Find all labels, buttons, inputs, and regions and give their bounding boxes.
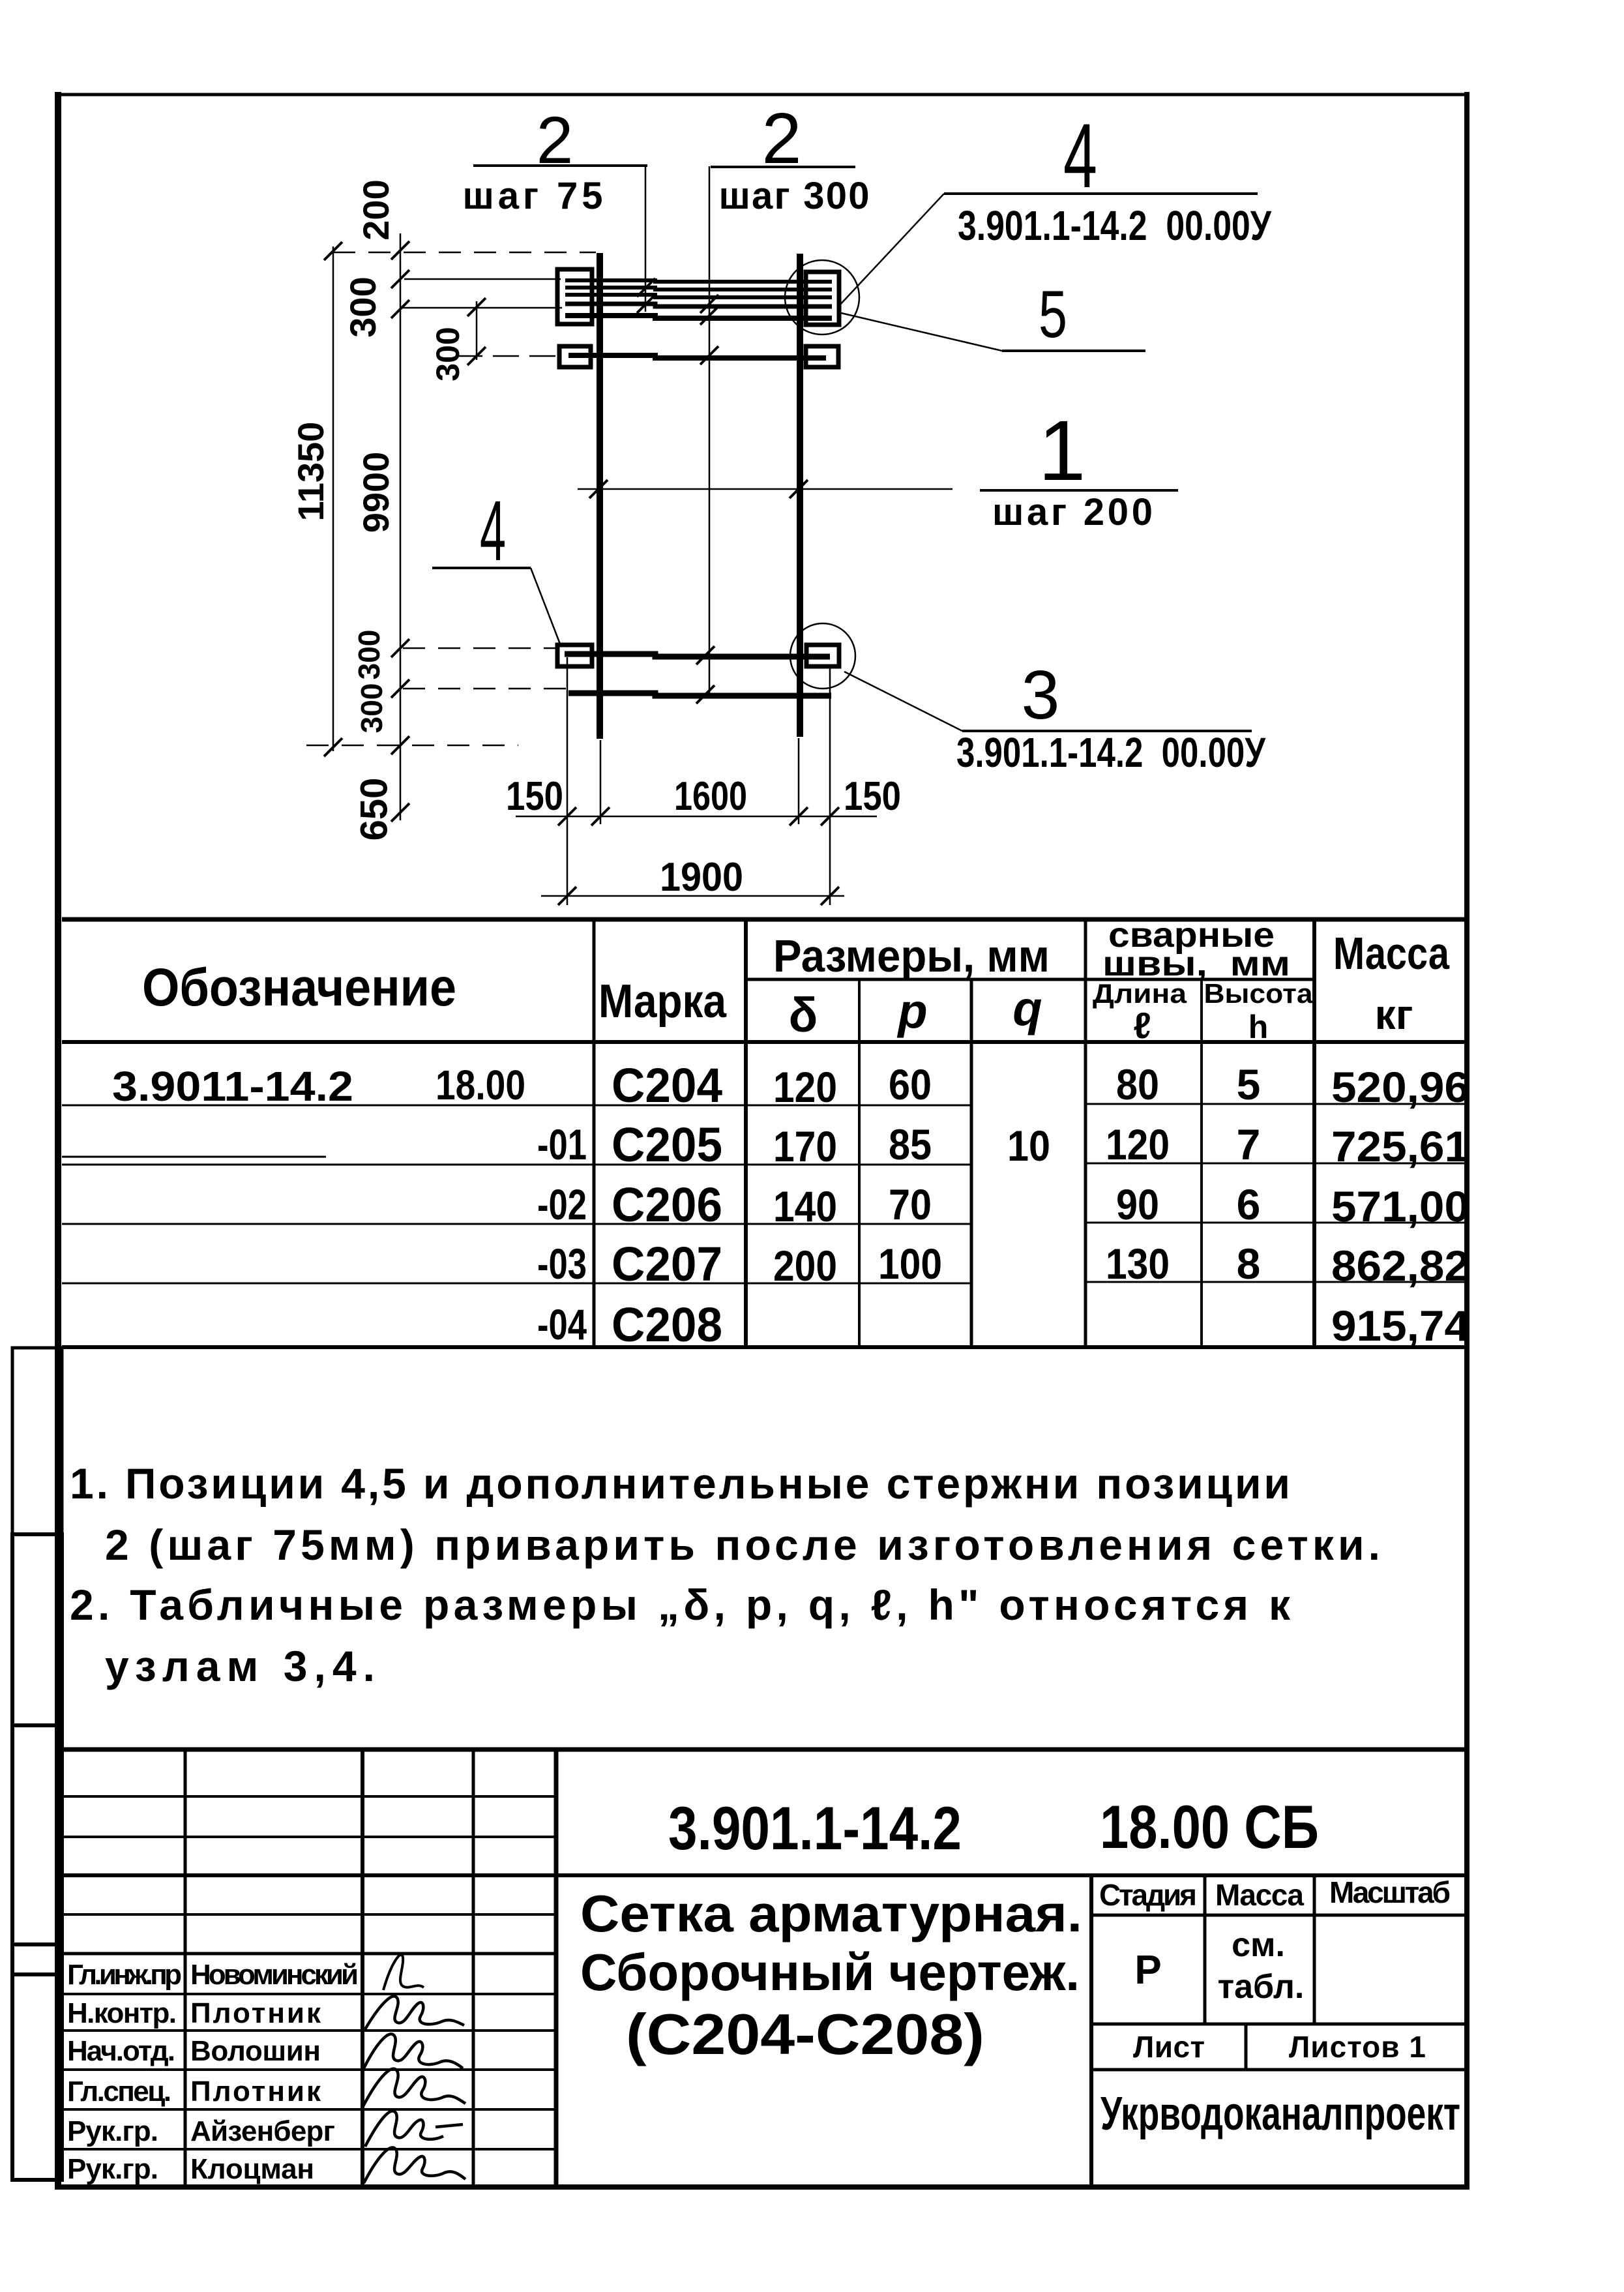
list row bottom <box>1091 2068 1466 2072</box>
table row line 4 <box>62 1283 971 1285</box>
binding box 0 <box>12 1348 62 1534</box>
sig row lines <box>62 1795 556 1798</box>
svg-text:шаг 300: шаг 300 <box>719 175 870 217</box>
underline 3 <box>962 730 1252 732</box>
border frame top <box>55 93 1469 97</box>
mesh right longitudinal bar <box>797 254 803 737</box>
svg-text:100: 100 <box>878 1240 942 1288</box>
bottom transverse bar A <box>565 654 830 657</box>
mesh left longitudinal bar <box>597 253 603 739</box>
svg-text:862,82: 862,82 <box>1331 1242 1469 1290</box>
underline 4 mid <box>432 567 531 569</box>
svg-text:85: 85 <box>889 1120 932 1168</box>
svg-text:18.00 СБ: 18.00 СБ <box>1100 1793 1319 1861</box>
table col p/q <box>970 979 973 1347</box>
svg-text:4: 4 <box>480 483 506 578</box>
svg-text:Сетка арматурная.: Сетка арматурная. <box>580 1884 1082 1942</box>
svg-text:Новоминский: Новоминский <box>190 1959 359 1991</box>
svg-text:Обозначение: Обозначение <box>142 958 456 1017</box>
extension line y472 <box>403 307 562 309</box>
node circle top <box>785 260 859 335</box>
svg-text:150: 150 <box>844 774 901 819</box>
single transverse bar top <box>568 355 826 358</box>
svg-text:130: 130 <box>1106 1240 1170 1288</box>
bottom transverse bar B <box>568 693 831 696</box>
table header bottom <box>62 1040 1466 1044</box>
svg-text:см.: см. <box>1232 1926 1285 1964</box>
svg-text:-03: -03 <box>537 1240 587 1288</box>
svg-text:Высота: Высота <box>1204 978 1314 1009</box>
svg-text:швы, мм: швы, мм <box>1102 944 1290 983</box>
svg-text:Айзенберг: Айзенберг <box>190 2115 335 2147</box>
border frame bottom <box>55 2184 1469 2190</box>
svg-text:Гл.спец.: Гл.спец. <box>67 2076 171 2107</box>
extension dashed y1143 <box>306 745 518 747</box>
ticks bottom dims <box>558 807 839 905</box>
svg-text:шаг 75: шаг 75 <box>463 175 603 217</box>
svg-text:-02: -02 <box>537 1180 587 1228</box>
svg-text:Плотник: Плотник <box>190 1997 321 2029</box>
svg-text:Стадия: Стадия <box>1099 1878 1197 1912</box>
svg-text:С208: С208 <box>612 1298 722 1352</box>
table row line 2 double <box>62 1156 326 1158</box>
plate P5 bottom-left <box>557 645 592 666</box>
svg-text:1900: 1900 <box>660 855 743 900</box>
plate P4 right small <box>806 346 838 367</box>
ext vertical bottom dims <box>567 657 830 905</box>
table row line 1 <box>62 1105 971 1107</box>
svg-text:С206: С206 <box>612 1178 722 1232</box>
svg-text:Гл.инж.пр: Гл.инж.пр <box>67 1959 182 1991</box>
svg-text:5: 5 <box>1237 1060 1261 1109</box>
list col divider <box>1245 2024 1248 2070</box>
svg-text:С207: С207 <box>612 1237 722 1291</box>
svg-text:5: 5 <box>1039 277 1067 351</box>
svg-text:Сборочный чертеж.: Сборочный чертеж. <box>580 1943 1080 2001</box>
stadia cols <box>1203 1875 1207 2024</box>
signature scrawl 3 <box>364 2034 463 2068</box>
svg-text:1600: 1600 <box>674 774 747 819</box>
bar tick slashes <box>589 278 808 704</box>
table col marka/delta <box>744 919 748 1347</box>
signature scrawl 1 <box>383 1955 424 1990</box>
svg-text:Р: Р <box>1134 1948 1161 1993</box>
leader 4 top <box>838 194 944 306</box>
svg-text:Рук.гр.: Рук.гр. <box>67 2115 158 2147</box>
svg-text:Масса: Масса <box>1333 928 1450 979</box>
svg-text:3: 3 <box>1022 657 1060 734</box>
svg-text:Масса: Масса <box>1215 1878 1304 1912</box>
svg-text:140: 140 <box>773 1182 837 1230</box>
binding box 4 <box>12 1974 62 2180</box>
svg-text:300: 300 <box>352 630 386 680</box>
bundle bar 5 pos5 <box>565 316 832 318</box>
svg-text:табл.: табл. <box>1218 1968 1305 2006</box>
extension line y428 <box>404 278 561 280</box>
binding box 2 <box>12 1725 62 1944</box>
extension line y546 <box>456 355 559 357</box>
svg-text:18.00: 18.00 <box>436 1062 525 1109</box>
extension dashed y994 <box>403 647 556 649</box>
bundle bar 3 <box>565 295 832 297</box>
svg-text:90: 90 <box>1116 1180 1159 1228</box>
svg-text:571,00: 571,00 <box>1331 1182 1469 1230</box>
svg-text:3.901.1-14.2 00.00У: 3.901.1-14.2 00.00У <box>958 202 1272 249</box>
thin vertical ext sh300 <box>709 166 711 698</box>
svg-text:11350: 11350 <box>290 422 331 522</box>
extension dashed mesh top <box>333 252 596 254</box>
signature scrawl 5 <box>365 2111 463 2147</box>
dim line shag200 <box>578 488 952 490</box>
bundle bar 2 <box>565 288 832 290</box>
table col vysota/massa <box>1312 919 1316 1347</box>
extension dashed y1056 <box>403 688 566 690</box>
svg-text:Клоцман: Клоцман <box>190 2153 314 2185</box>
table col delta/p <box>858 979 861 1347</box>
svg-text:7: 7 <box>1237 1120 1261 1168</box>
underline 2 sh300 <box>711 166 855 168</box>
signature scrawl 2 <box>365 1996 464 2029</box>
titleblock top line <box>62 1748 1466 1752</box>
svg-text:9900: 9900 <box>355 452 396 533</box>
svg-text:150: 150 <box>506 774 563 819</box>
svg-text:Листов 1: Листов 1 <box>1289 2030 1426 2064</box>
table bottom line <box>62 1345 1466 1349</box>
svg-text:δ: δ <box>789 988 818 1042</box>
svg-text:3.901.1-14.2 00.00У: 3.901.1-14.2 00.00У <box>956 729 1266 776</box>
svg-text:h: h <box>1248 1009 1269 1045</box>
svg-text:Волошин: Волошин <box>190 2035 321 2067</box>
title col line <box>1089 1875 1093 2187</box>
svg-text:200: 200 <box>773 1242 837 1290</box>
svg-text:8: 8 <box>1237 1240 1261 1288</box>
svg-text:С204: С204 <box>612 1058 722 1112</box>
underline 1 <box>980 489 1178 492</box>
table col dlina/vysota <box>1200 979 1203 1347</box>
leader 3 <box>844 672 962 731</box>
dim line 1600 <box>516 816 877 818</box>
svg-text:80: 80 <box>1116 1060 1159 1109</box>
bundle bar 1 <box>565 280 832 282</box>
border frame right <box>1464 92 1469 2190</box>
svg-text:Н.контр.: Н.контр. <box>67 1997 177 2029</box>
svg-text:1: 1 <box>1039 402 1086 498</box>
node circle bottom <box>790 623 855 689</box>
svg-text:915,74: 915,74 <box>1331 1302 1469 1350</box>
plate P1 top-left <box>557 269 592 324</box>
binding box 1 <box>12 1534 62 1725</box>
bundle bar 4 <box>565 304 832 306</box>
svg-text:ℓ: ℓ <box>1133 1005 1151 1046</box>
dim line 1900 <box>541 895 844 897</box>
svg-text:Длина: Длина <box>1093 978 1187 1009</box>
svg-text:Марка: Марка <box>598 975 727 1028</box>
thin vertical ext sh75 <box>645 164 647 312</box>
binding box 3 <box>12 1944 62 1974</box>
table top line <box>62 917 1466 922</box>
svg-text:Рук.гр.: Рук.гр. <box>67 2153 158 2185</box>
svg-text:(С204-С208): (С204-С208) <box>626 2002 984 2066</box>
tick marks left chains <box>324 241 486 822</box>
svg-text:300: 300 <box>342 276 383 337</box>
svg-text:3.9011-14.2: 3.9011-14.2 <box>112 1063 353 1110</box>
svg-text:725,61: 725,61 <box>1331 1122 1469 1170</box>
svg-text:120: 120 <box>773 1063 837 1111</box>
plate P3 left small <box>559 346 591 367</box>
table row line 2 <box>62 1164 971 1166</box>
svg-text:10: 10 <box>1007 1122 1050 1170</box>
svg-text:узлам 3,4.: узлам 3,4. <box>105 1642 375 1690</box>
border frame left <box>55 92 61 2190</box>
underline 2 sh75 <box>473 164 647 167</box>
svg-text:q: q <box>1012 981 1042 1035</box>
svg-text:С205: С205 <box>612 1118 722 1172</box>
svg-text:650: 650 <box>353 778 395 841</box>
svg-text:Укрводоканалпроект: Укрводоканалпроект <box>1100 2088 1460 2140</box>
svg-text:200: 200 <box>355 179 396 240</box>
svg-text:p: p <box>896 984 927 1038</box>
titleblock full line docnum bottom <box>62 1873 1466 1877</box>
plate P2 top-right <box>806 272 839 325</box>
svg-text:6: 6 <box>1237 1180 1261 1228</box>
svg-text:кг: кг <box>1375 991 1413 1038</box>
table subheader line <box>746 978 1314 981</box>
leader 5 <box>841 313 1002 351</box>
svg-text:300: 300 <box>430 327 466 381</box>
plate P6 bottom-right <box>806 645 839 666</box>
dim small chain 300 <box>476 301 478 360</box>
svg-text:3.901.1-14.2: 3.901.1-14.2 <box>668 1794 962 1862</box>
svg-text:-01: -01 <box>537 1120 587 1168</box>
table col oboznachenie/marka <box>593 919 596 1347</box>
svg-text:1. Позиции 4,5 и дополнительны: 1. Позиции 4,5 и дополнительные стержни … <box>70 1459 1290 1508</box>
underline 4 top <box>944 192 1258 195</box>
signature scrawl 6 <box>364 2147 465 2183</box>
svg-text:520,96: 520,96 <box>1331 1063 1469 1111</box>
svg-text:4: 4 <box>1063 104 1097 207</box>
dim chain line left <box>400 233 402 820</box>
svg-text:300: 300 <box>355 683 389 734</box>
table row line 3 <box>62 1223 971 1225</box>
underline 5 <box>1002 350 1145 352</box>
dim line 11350 <box>332 246 334 751</box>
list row top <box>1091 2023 1466 2026</box>
svg-text:Лист: Лист <box>1133 2030 1205 2064</box>
svg-text:Масштаб: Масштаб <box>1329 1875 1451 1909</box>
svg-text:120: 120 <box>1106 1120 1170 1168</box>
svg-text:Размеры, мм: Размеры, мм <box>773 930 1050 981</box>
svg-text:60: 60 <box>889 1060 932 1109</box>
table col q/dlina <box>1084 919 1087 1347</box>
svg-text:Плотник: Плотник <box>190 2076 321 2107</box>
svg-text:-04: -04 <box>537 1300 587 1348</box>
svg-text:170: 170 <box>773 1122 837 1170</box>
stadia header underline <box>1091 1914 1466 1917</box>
sig col lines <box>184 1749 187 2187</box>
leader 4 mid <box>531 568 561 646</box>
signature scrawl 4 <box>362 2069 465 2107</box>
svg-text:70: 70 <box>889 1180 932 1228</box>
svg-text:Нач.отд.: Нач.отд. <box>67 2035 175 2067</box>
